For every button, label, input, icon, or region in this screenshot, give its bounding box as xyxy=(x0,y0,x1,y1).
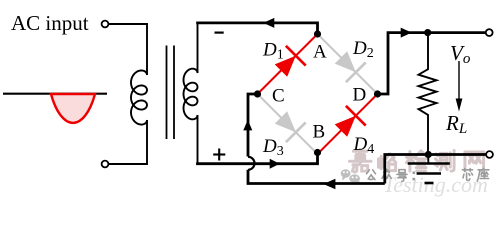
wire hop over rail1 xyxy=(248,157,255,170)
wire from hop down to rail2 xyxy=(248,170,385,184)
svg-text:RL: RL xyxy=(445,111,467,137)
diode D2 triangle and bar xyxy=(331,48,366,83)
diode D4 triangle and bar xyxy=(331,106,366,141)
terminal bottom-left xyxy=(102,161,109,168)
plus label xyxy=(213,149,225,161)
node C dot xyxy=(254,90,261,97)
wire top rail xyxy=(196,23,317,34)
watermark small gray text xyxy=(367,170,376,180)
input negative half-cycle pulse xyxy=(51,94,95,123)
arrow up on C wire xyxy=(243,120,252,131)
secondary coil L2 xyxy=(184,69,198,120)
junction dot top right xyxy=(424,29,431,36)
watermark wechat icon xyxy=(341,169,360,185)
wire bottom rail1 xyxy=(198,152,318,164)
svg-text:D4: D4 xyxy=(353,134,375,157)
terminal bottom-right xyxy=(486,151,493,158)
wire top-left input xyxy=(109,24,148,75)
input waveform axis xyxy=(3,93,107,95)
core line 2 xyxy=(173,46,175,140)
diode D3 triangle and bar xyxy=(271,108,306,143)
arrow rail2 pointing left xyxy=(323,179,335,189)
core line 1 xyxy=(166,46,168,140)
junction dot bottom right xyxy=(425,151,432,158)
watermark big text jiayujiancewang xyxy=(349,150,371,173)
svg-text:D2: D2 xyxy=(352,38,374,61)
wire bottom-left input xyxy=(109,120,148,164)
watermark colon xyxy=(413,172,416,181)
ground xyxy=(408,155,450,184)
diode D1 triangle and bar xyxy=(271,46,306,81)
wire secondary bottom lead xyxy=(197,115,199,164)
node B dot xyxy=(314,149,321,156)
minus label xyxy=(215,31,224,33)
arrow top rail pointing left xyxy=(263,18,274,28)
wire secondary top lead xyxy=(197,23,199,73)
arrow rail1 pointing right xyxy=(270,159,280,169)
primary coil L1 xyxy=(131,70,147,124)
svg-text:D1: D1 xyxy=(262,40,284,63)
svg-text:A: A xyxy=(313,42,327,63)
svg-text:AC input: AC input xyxy=(11,11,89,35)
node D dot xyxy=(374,90,381,97)
svg-text:D3: D3 xyxy=(262,136,284,159)
arrow top right pointing right xyxy=(401,28,412,38)
node A dot xyxy=(314,30,321,37)
Vo arrow down xyxy=(458,61,460,100)
diode wire D3 (C to B) gray xyxy=(258,94,318,154)
svg-text:D: D xyxy=(353,85,367,106)
svg-text:B: B xyxy=(313,122,326,143)
svg-text:C: C xyxy=(272,86,285,107)
wire bottom right rail xyxy=(385,155,486,184)
wire D to top right rail xyxy=(378,33,487,94)
resistor RL xyxy=(419,33,437,155)
diode wire D4 (B to D) red xyxy=(318,94,378,154)
diode wire D2 (A to D) gray xyxy=(318,34,378,94)
svg-text:Vo: Vo xyxy=(450,41,471,67)
terminal top-left xyxy=(102,21,109,28)
wire C to left corner and down xyxy=(248,94,258,157)
diode wire D1 (C to A) red xyxy=(258,34,318,94)
terminal top-right xyxy=(486,29,493,36)
